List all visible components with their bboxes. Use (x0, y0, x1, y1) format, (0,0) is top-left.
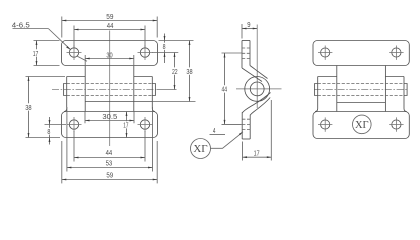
svg-text:38: 38 (25, 103, 31, 112)
svg-text:8: 8 (163, 42, 166, 51)
center knuckle side edges (336, 66, 338, 112)
dimension 59 bottom (61, 141, 63, 183)
knuckle outer circle (245, 77, 270, 102)
dimension 38 right (152, 101, 195, 103)
dimension 17 bottom (126, 112, 128, 122)
hole bottom-left (69, 120, 78, 129)
hinge axis center line (52, 89, 157, 91)
dimension 30 (84, 55, 86, 65)
dimension 30.5 (84, 111, 86, 123)
barrel outer edges (315, 77, 318, 112)
pin end cap left (64, 84, 67, 96)
top leaf plate (313, 41, 409, 66)
barrel top edges (318, 76, 337, 78)
lower neck (242, 93, 270, 114)
hole top-left (69, 48, 78, 57)
barrel bottom edge (85, 101, 152, 103)
svg-text:59: 59 (106, 12, 113, 21)
hole bottom-right (392, 120, 401, 129)
svg-text:8: 8 (47, 127, 50, 136)
bottom leaf plate (313, 112, 409, 139)
svg-text:4: 4 (213, 126, 216, 135)
pin end cap right (152, 84, 155, 96)
center knuckle side edges (84, 66, 86, 112)
pin hidden lines (318, 83, 404, 85)
svg-text:53: 53 (106, 158, 113, 167)
dimension 8 bottom left (45, 124, 67, 126)
svg-text:XΓ: XΓ (355, 120, 369, 131)
svg-text:44: 44 (107, 21, 114, 30)
dimension 9 top (241, 24, 243, 39)
knuckle horizontal center line (236, 88, 282, 90)
dimension 44 bottom (73, 131, 75, 162)
hole bottom-right (140, 120, 149, 129)
dimension 44 top (73, 26, 75, 49)
dimension 53 bottom (66, 107, 68, 172)
dimension 22 right (174, 53, 176, 68)
svg-text:44: 44 (106, 148, 113, 157)
hole top-right (392, 48, 401, 57)
top strip (242, 40, 250, 42)
svg-text:17: 17 (254, 148, 260, 157)
logo mark circle XL (353, 115, 372, 134)
knuckle vertical center line (256, 25, 258, 109)
pin end cap right (404, 84, 407, 96)
hinge axis center line (314, 89, 408, 91)
svg-text:59: 59 (106, 171, 113, 180)
hole top-left (321, 48, 330, 57)
svg-text:17: 17 (123, 121, 128, 130)
leader from mark to side view (210, 132, 243, 149)
svg-text:38: 38 (186, 67, 192, 76)
dimension 8 top right (159, 40, 194, 42)
vertical center line (109, 31, 111, 147)
hole bottom-left (321, 120, 330, 129)
dimension 38 left (26, 76, 66, 78)
dimension 17 left (34, 40, 60, 42)
upper neck (242, 68, 262, 82)
barrel top edges (67, 76, 86, 78)
dimension 44 middle (222, 52, 243, 54)
svg-text:17: 17 (33, 49, 39, 58)
svg-text:XΓ: XΓ (193, 143, 207, 155)
dimension 59 top (61, 17, 63, 38)
inspection mark circle XL (191, 139, 211, 159)
svg-text:4-6.5: 4-6.5 (12, 20, 30, 29)
pin hidden lines (67, 83, 153, 85)
center knuckle bottom edge (337, 102, 386, 104)
svg-text:9: 9 (247, 20, 250, 29)
barrel outer edges (64, 77, 67, 112)
pin end cap left (315, 84, 318, 96)
svg-text:22: 22 (172, 67, 178, 76)
svg-text:30.5: 30.5 (102, 112, 117, 121)
svg-text:44: 44 (222, 85, 228, 94)
top leaf plate (62, 41, 158, 66)
hole top-right (140, 48, 149, 57)
bottom leaf plate (62, 112, 158, 138)
bottom strip (241, 112, 243, 139)
svg-text:30: 30 (106, 50, 112, 59)
top hole hidden lines (242, 47, 250, 49)
bottom hole hidden lines (242, 118, 250, 120)
dimension 17 middle bottom (242, 142, 244, 161)
pin hole circle (250, 82, 264, 96)
